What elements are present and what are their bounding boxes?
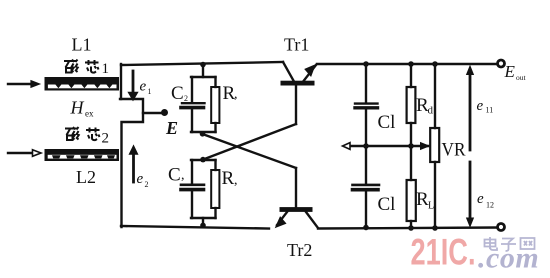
svg-text:.com: .com — [478, 242, 539, 275]
node: C1 bottom junction on rail — [200, 223, 206, 229]
svg-text:L: L — [428, 201, 434, 212]
node: C1 top junction — [200, 157, 206, 163]
arrow e11 — [467, 66, 474, 150]
arrow e12 — [467, 162, 474, 227]
svg-text:2: 2 — [102, 131, 110, 147]
input arrow 1 — [8, 81, 40, 88]
wire: bottom rail right segment — [318, 228, 498, 229]
wire: centre-tap staircase down to bottom rail — [120, 99, 143, 227]
wire: stub rail to C2 loop — [202, 64, 204, 77]
svg-text:,: , — [234, 173, 238, 188]
potentiometer VR — [430, 64, 439, 228]
arrow e2 (up) — [130, 146, 138, 182]
svg-text:C: C — [171, 83, 184, 104]
svg-text:d: d — [428, 105, 434, 117]
capacitor Cl (upper) — [355, 64, 378, 146]
wire: top rail right segment — [317, 63, 498, 65]
svg-text:Tr1: Tr1 — [284, 35, 309, 55]
wire: E tap — [143, 112, 162, 114]
svg-text:2: 2 — [184, 94, 188, 103]
svg-text:12: 12 — [486, 201, 494, 210]
watermark 电子网 (hand-drawn, lavender) — [485, 237, 535, 251]
capacitor C1 / resistor Rb parallel loop (lower) — [181, 160, 219, 225]
svg-text:e: e — [477, 98, 484, 114]
inductor L1 — [45, 77, 120, 91]
wire: mid rail — [349, 145, 428, 147]
svg-text:H: H — [70, 98, 85, 118]
arrow e1 (down) — [129, 71, 138, 100]
resistor RL — [407, 146, 416, 228]
svg-text:1: 1 — [148, 87, 152, 96]
svg-text:E: E — [504, 62, 516, 81]
svg-text:out: out — [516, 73, 527, 82]
node: C2 bottom junction — [200, 131, 206, 137]
wire: cross-coupling diagonal Tr2 base to C2 bottom — [203, 134, 297, 168]
label 磁芯2 — [65, 127, 100, 140]
terminal E_out — [498, 60, 505, 67]
wire: cross-coupling diagonal Tr1 base to C1 top — [203, 124, 296, 160]
svg-text:ex: ex — [85, 109, 94, 119]
label 磁芯1 (hand-drawn CJK) — [64, 60, 99, 73]
svg-text:L2: L2 — [76, 167, 96, 187]
svg-text:Tr2: Tr2 — [287, 240, 312, 260]
terminal bottom right — [498, 224, 505, 231]
svg-text:e: e — [477, 191, 484, 207]
svg-text:VR: VR — [442, 140, 466, 161]
svg-text:C: C — [168, 165, 181, 186]
svg-text:Cl: Cl — [378, 194, 396, 215]
capacitor Cl (lower) — [353, 146, 380, 227]
svg-text:L1: L1 — [72, 35, 92, 55]
inductor L2 — [45, 149, 120, 161]
wire: bottom rail left segment — [121, 226, 269, 229]
svg-text:R: R — [222, 168, 235, 189]
resistor Rd — [407, 64, 416, 146]
node: C2 top junction — [200, 62, 206, 68]
transistor Tr1 — [281, 62, 316, 124]
svg-text:,: , — [234, 87, 238, 102]
svg-text:Cl: Cl — [378, 112, 396, 133]
wire: top rail left segment — [121, 62, 283, 65]
node dots on mid rail — [363, 143, 369, 149]
node dots on bottom rail — [363, 225, 369, 231]
svg-text:21IC.: 21IC. — [411, 232, 476, 273]
svg-text:e: e — [140, 79, 147, 95]
capacitor C2 / resistor Rb parallel loop — [181, 77, 219, 132]
svg-text:1: 1 — [102, 61, 110, 77]
input arrow 2 — [8, 150, 41, 157]
transistor Tr2 — [276, 168, 318, 228]
wire: left vertical from top rail through L1 end — [120, 64, 122, 99]
node E dot — [161, 109, 168, 116]
svg-text:2: 2 — [145, 180, 149, 189]
svg-text:11: 11 — [486, 106, 494, 115]
svg-text:E: E — [165, 118, 178, 138]
node dots on top rail — [363, 61, 369, 67]
open arrow left end of mid rail — [343, 143, 351, 150]
svg-text:,: , — [181, 168, 185, 183]
svg-text:e: e — [137, 171, 144, 187]
wiper arrow into VR — [421, 143, 430, 150]
